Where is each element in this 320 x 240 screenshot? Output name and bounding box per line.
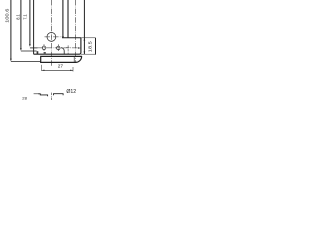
- dimension line D1 vertical: [10, 0, 12, 60]
- big hole: [47, 33, 56, 42]
- center mark vertical: [67, 45, 69, 54]
- dim 27 right extension: [72, 67, 74, 72]
- small hole H2: [57, 46, 61, 50]
- side view outline: [41, 56, 82, 62]
- svg-text:7.1: 7.1: [23, 14, 28, 20]
- step edge E1: [62, 0, 64, 38]
- tab T2 dark: [44, 52, 46, 54]
- dim 18.5 bottom extension: [81, 53, 96, 55]
- extension line from D1 to side view: [11, 61, 41, 63]
- bottom view arrow: [34, 93, 40, 95]
- dimension line D2 vertical: [20, 0, 22, 50]
- arc feature near bottom edge: [61, 48, 64, 55]
- plate left edge: [33, 0, 35, 54]
- arrow on centerline at right edge: [78, 47, 81, 48]
- arrow D1: [10, 59, 12, 62]
- dim 27 left extension: [41, 65, 43, 71]
- svg-text:18.5: 18.5: [88, 41, 93, 53]
- bottom view centerline: [51, 93, 53, 100]
- dim 27 line: [42, 69, 73, 71]
- second dim line right: [95, 38, 97, 55]
- bottom view edge B: [54, 94, 64, 96]
- arrow D2: [20, 48, 22, 51]
- svg-text:100.6: 100.6: [5, 8, 11, 23]
- extension line from D2 to tab edge: [21, 50, 37, 52]
- dim 18.5 top extension: [81, 37, 96, 39]
- arrow D3: [29, 44, 31, 47]
- centerline bar end: [75, 0, 77, 62]
- bottom view edge A: [40, 94, 47, 97]
- horizontal centerline through big hole: [45, 36, 65, 38]
- small hole H1: [42, 46, 46, 50]
- dimension line D3 vertical: [29, 0, 31, 46]
- side view inner edge: [73, 56, 75, 62]
- arrow 18.5 up: [84, 38, 86, 41]
- center mark crosshair: [66, 47, 70, 49]
- svg-text:28: 28: [22, 96, 27, 100]
- svg-text:Ø12: Ø12: [66, 89, 76, 95]
- horizontal centerline through small holes: [38, 47, 78, 49]
- arrow 27 left: [42, 70, 45, 71]
- svg-text:8.1: 8.1: [16, 14, 21, 20]
- plate top-right edge: [62, 37, 81, 39]
- step edge E2: [67, 0, 69, 38]
- plate bottom edge: [34, 38, 81, 54]
- tab T1 dark: [37, 51, 39, 54]
- vertical centerline: [51, 0, 53, 67]
- dim 18.5 line: [83, 0, 85, 54]
- extension line from D3 to hole centerline: [30, 47, 38, 49]
- centerline H2 vertical: [57, 44, 59, 51]
- centerline H1 vertical: [43, 44, 45, 51]
- arrow 18.5 down: [84, 51, 86, 54]
- arrow 27 right: [70, 70, 73, 71]
- svg-text:27: 27: [58, 64, 64, 69]
